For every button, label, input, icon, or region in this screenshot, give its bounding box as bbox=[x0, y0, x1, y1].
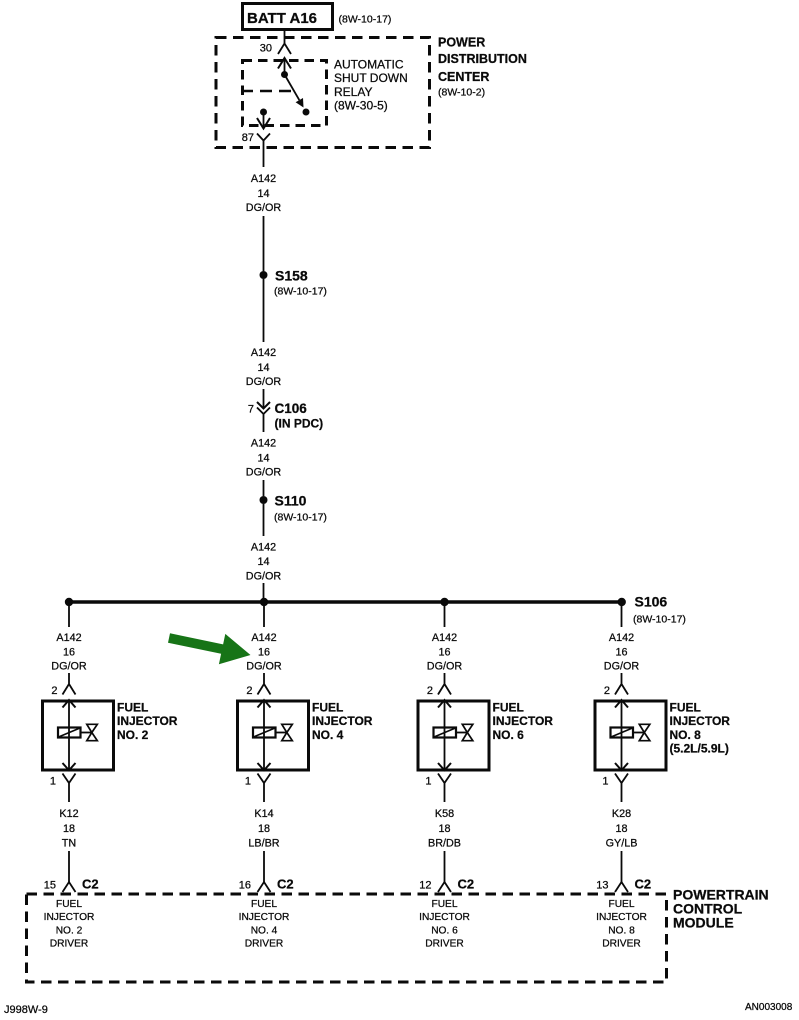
svg-text:DG/OR: DG/OR bbox=[604, 661, 640, 673]
svg-text:NO. 4: NO. 4 bbox=[251, 926, 278, 937]
svg-text:DRIVER: DRIVER bbox=[602, 939, 641, 950]
svg-text:A142: A142 bbox=[251, 173, 276, 185]
svg-text:30: 30 bbox=[260, 43, 272, 55]
svg-text:14: 14 bbox=[257, 556, 269, 568]
svg-text:18: 18 bbox=[615, 823, 627, 835]
svg-text:FUEL: FUEL bbox=[431, 899, 457, 910]
svg-text:DISTRIBUTION: DISTRIBUTION bbox=[438, 52, 527, 66]
svg-text:INJECTOR: INJECTOR bbox=[117, 714, 178, 728]
svg-text:C106: C106 bbox=[275, 401, 308, 416]
svg-text:INJECTOR: INJECTOR bbox=[44, 912, 95, 923]
svg-text:16: 16 bbox=[258, 647, 270, 659]
svg-text:S158: S158 bbox=[275, 268, 308, 284]
svg-text:DG/OR: DG/OR bbox=[246, 661, 282, 673]
svg-text:INJECTOR: INJECTOR bbox=[493, 714, 554, 728]
svg-text:A142: A142 bbox=[251, 347, 276, 359]
svg-text:16: 16 bbox=[615, 647, 627, 659]
svg-text:FUEL: FUEL bbox=[312, 701, 343, 715]
svg-text:BATT A16: BATT A16 bbox=[247, 10, 317, 27]
svg-text:NO. 8: NO. 8 bbox=[670, 728, 702, 742]
svg-text:C2: C2 bbox=[277, 877, 294, 892]
svg-text:DG/OR: DG/OR bbox=[246, 202, 282, 214]
svg-text:A142: A142 bbox=[251, 632, 276, 644]
svg-text:DG/OR: DG/OR bbox=[246, 571, 282, 583]
svg-text:J998W-9: J998W-9 bbox=[4, 1004, 48, 1016]
svg-text:18: 18 bbox=[438, 823, 450, 835]
svg-text:A142: A142 bbox=[609, 632, 634, 644]
svg-text:INJECTOR: INJECTOR bbox=[239, 912, 290, 923]
svg-text:INJECTOR: INJECTOR bbox=[312, 714, 373, 728]
svg-text:2: 2 bbox=[604, 685, 610, 697]
svg-text:K58: K58 bbox=[435, 808, 454, 820]
svg-text:FUEL: FUEL bbox=[56, 899, 82, 910]
svg-text:1: 1 bbox=[425, 776, 431, 788]
svg-text:18: 18 bbox=[63, 823, 75, 835]
svg-text:C2: C2 bbox=[458, 877, 475, 892]
svg-text:NO. 6: NO. 6 bbox=[431, 926, 458, 937]
svg-text:16: 16 bbox=[63, 647, 75, 659]
svg-text:RELAY: RELAY bbox=[334, 85, 372, 99]
svg-text:2: 2 bbox=[246, 685, 252, 697]
svg-text:14: 14 bbox=[257, 362, 269, 374]
svg-text:DG/OR: DG/OR bbox=[246, 376, 282, 388]
svg-text:16: 16 bbox=[239, 880, 251, 892]
svg-text:DRIVER: DRIVER bbox=[50, 939, 89, 950]
svg-text:A142: A142 bbox=[251, 542, 276, 554]
svg-text:7: 7 bbox=[248, 404, 254, 416]
svg-text:S106: S106 bbox=[635, 594, 668, 610]
svg-text:NO. 6: NO. 6 bbox=[493, 728, 525, 742]
svg-text:14: 14 bbox=[257, 453, 269, 465]
svg-text:16: 16 bbox=[438, 647, 450, 659]
svg-text:(8W-30-5): (8W-30-5) bbox=[334, 99, 388, 113]
svg-text:(8W-10-17): (8W-10-17) bbox=[274, 286, 327, 298]
svg-text:K14: K14 bbox=[254, 808, 273, 820]
svg-text:BR/DB: BR/DB bbox=[428, 838, 461, 850]
svg-text:(5.2L/5.9L): (5.2L/5.9L) bbox=[670, 742, 729, 756]
svg-text:DRIVER: DRIVER bbox=[425, 939, 464, 950]
svg-text:FUEL: FUEL bbox=[608, 899, 634, 910]
svg-text:CENTER: CENTER bbox=[438, 70, 489, 84]
svg-text:15: 15 bbox=[44, 880, 56, 892]
svg-text:(8W-10-2): (8W-10-2) bbox=[438, 87, 485, 99]
svg-text:POWER: POWER bbox=[438, 36, 485, 50]
svg-text:SHUT DOWN: SHUT DOWN bbox=[334, 71, 408, 85]
svg-text:(8W-10-17): (8W-10-17) bbox=[339, 14, 392, 26]
svg-text:DG/OR: DG/OR bbox=[246, 467, 282, 479]
svg-text:A142: A142 bbox=[251, 438, 276, 450]
svg-text:INJECTOR: INJECTOR bbox=[670, 714, 731, 728]
svg-text:1: 1 bbox=[245, 776, 251, 788]
svg-text:13: 13 bbox=[596, 880, 608, 892]
svg-text:2: 2 bbox=[51, 685, 57, 697]
svg-text:1: 1 bbox=[50, 776, 56, 788]
svg-text:DG/OR: DG/OR bbox=[51, 661, 87, 673]
svg-text:A142: A142 bbox=[56, 632, 81, 644]
svg-text:LB/BR: LB/BR bbox=[248, 838, 279, 850]
svg-text:AUTOMATIC: AUTOMATIC bbox=[334, 58, 404, 72]
svg-text:1: 1 bbox=[602, 776, 608, 788]
svg-text:(8W-10-17): (8W-10-17) bbox=[633, 614, 686, 626]
svg-text:18: 18 bbox=[258, 823, 270, 835]
svg-text:(8W-10-17): (8W-10-17) bbox=[274, 512, 327, 524]
svg-text:(IN PDC): (IN PDC) bbox=[275, 417, 324, 431]
svg-text:A142: A142 bbox=[432, 632, 457, 644]
svg-text:14: 14 bbox=[257, 188, 269, 200]
svg-text:INJECTOR: INJECTOR bbox=[419, 912, 470, 923]
svg-text:FUEL: FUEL bbox=[251, 899, 277, 910]
svg-text:FUEL: FUEL bbox=[670, 701, 701, 715]
svg-text:NO. 4: NO. 4 bbox=[312, 728, 344, 742]
svg-text:TN: TN bbox=[62, 838, 76, 850]
svg-text:87: 87 bbox=[242, 132, 254, 144]
svg-text:GY/LB: GY/LB bbox=[606, 838, 638, 850]
svg-text:DRIVER: DRIVER bbox=[245, 939, 284, 950]
svg-text:INJECTOR: INJECTOR bbox=[596, 912, 647, 923]
svg-text:FUEL: FUEL bbox=[117, 701, 148, 715]
svg-text:NO. 2: NO. 2 bbox=[56, 926, 83, 937]
svg-text:NO. 2: NO. 2 bbox=[117, 728, 149, 742]
svg-text:C2: C2 bbox=[82, 877, 99, 892]
svg-text:K28: K28 bbox=[612, 808, 631, 820]
svg-text:C2: C2 bbox=[635, 877, 652, 892]
svg-text:FUEL: FUEL bbox=[493, 701, 524, 715]
svg-text:AN003008: AN003008 bbox=[745, 1002, 793, 1013]
svg-text:12: 12 bbox=[419, 880, 431, 892]
svg-text:K12: K12 bbox=[59, 808, 78, 820]
svg-text:DG/OR: DG/OR bbox=[427, 661, 463, 673]
svg-text:MODULE: MODULE bbox=[673, 915, 734, 931]
svg-text:NO. 8: NO. 8 bbox=[608, 926, 635, 937]
svg-text:S110: S110 bbox=[275, 493, 307, 509]
svg-text:2: 2 bbox=[427, 685, 433, 697]
